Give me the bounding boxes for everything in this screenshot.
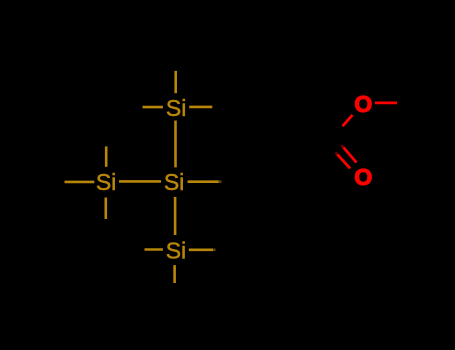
wire Si3 up methyl half-bond bbox=[105, 146, 108, 166]
wire Si2 right half-bond fade tail bbox=[219, 180, 222, 183]
svg-text:Si: Si bbox=[164, 169, 184, 195]
wire ester O to methyl half-bond bbox=[375, 102, 397, 105]
wire Si4 right methyl half-bond bbox=[189, 249, 213, 252]
wire C=O double bond line 2 fade tail bbox=[336, 152, 338, 154]
wire Si2 right half-bond to chain carbon bbox=[188, 180, 219, 183]
wire Si1-Si2 bond bbox=[174, 121, 177, 168]
wire Si2-Si4 bond bbox=[174, 197, 177, 235]
svg-text:Si: Si bbox=[166, 237, 186, 263]
wire Si1 up methyl half-bond bbox=[174, 71, 177, 93]
wire C=O double bond line 1 bbox=[344, 148, 357, 163]
wire ester O to carbonyl C half-bond bbox=[343, 115, 353, 126]
wire Si4 left methyl half-bond bbox=[145, 248, 163, 251]
svg-text:O: O bbox=[354, 91, 372, 117]
wire C=O double bond line 1 fade tail bbox=[342, 145, 344, 147]
wire Si3 left methyl half-bond bbox=[65, 181, 95, 184]
wire Si1 left methyl half-bond bbox=[143, 106, 163, 109]
svg-text:Si: Si bbox=[166, 95, 186, 121]
svg-text:Si: Si bbox=[96, 169, 116, 195]
wire Si4 right half-bond fade tail bbox=[213, 249, 216, 252]
wire Si3 down methyl half-bond bbox=[105, 198, 108, 220]
wire Si4 down methyl half-bond bbox=[173, 265, 176, 283]
svg-text:O: O bbox=[354, 164, 372, 190]
wire Si3-Si2 bond bbox=[119, 180, 161, 183]
wire Si1 right methyl half-bond bbox=[189, 106, 212, 109]
wire C=O double bond line 2 bbox=[337, 154, 350, 168]
